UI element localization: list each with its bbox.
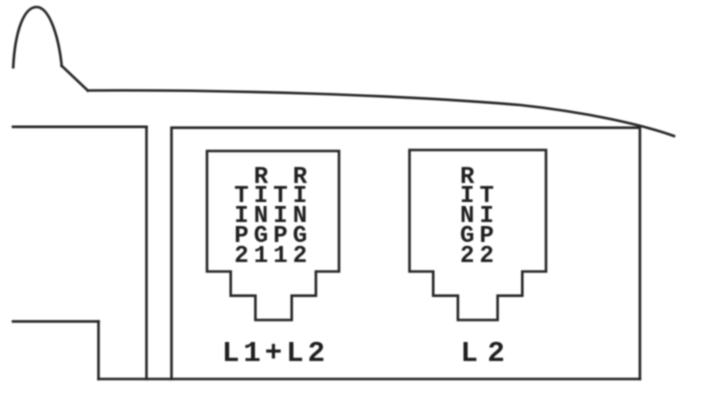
wall top edge (horizontal) (13, 126, 147, 129)
jack J2 outline (L2 modular jack with stepped keyway) (410, 150, 547, 320)
wire: long drooping cord across the top ending past box corner (88, 90, 674, 136)
wall right vertical edge (145, 127, 148, 379)
jack J1 outline (L1+L2 modular jack with stepped keyway) (207, 151, 339, 320)
wire: cord diagonal segment (62, 66, 88, 91)
label L2 under jack J2 (461, 339, 501, 368)
jack J1 pin labels: TIP2 RING1 TIP1 RING2 (columns) (234, 168, 312, 268)
wire: telephone cord loop arc at top-left (13, 7, 62, 67)
network-interface box outline (left, top, right sides) (172, 128, 640, 379)
wall inner vertical edge (97, 321, 100, 379)
label L1+L2 under jack J1 (222, 339, 329, 368)
jack J2 pin labels: RING2 TIP2 (columns) (460, 168, 499, 268)
wall inner horizontal edge (13, 320, 99, 323)
bottom baseline of wall and box (99, 378, 640, 381)
